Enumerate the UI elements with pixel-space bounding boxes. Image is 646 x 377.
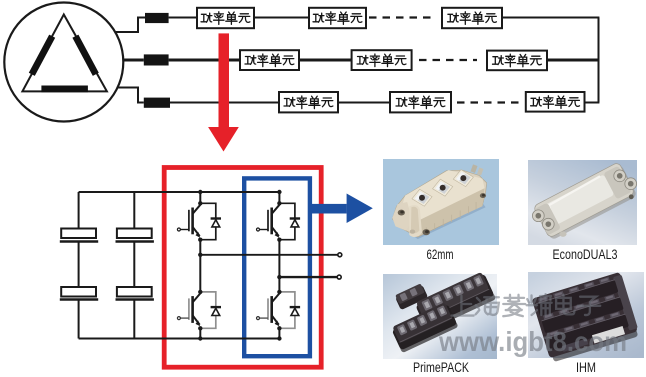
power unit box 1.1: [197, 8, 254, 28]
svg-text:IHM: IHM: [576, 359, 596, 375]
photo EconoDUAL3: [528, 160, 637, 245]
power unit box 2.3: [487, 51, 547, 71]
source circle: [4, 3, 123, 122]
DC bottom rail: [79, 338, 280, 340]
power unit box 3.3: [526, 92, 585, 112]
photo IHM: [528, 272, 644, 363]
wire phase 1 from source: [116, 18, 145, 33]
DC top rail: [79, 191, 280, 193]
blue arrow right: [309, 194, 373, 224]
wire: [585, 102, 600, 104]
wire: [254, 17, 309, 19]
dashed wire row 2: [419, 59, 477, 61]
junction top rail / leg B: [277, 190, 281, 194]
capacitor column 1 wires: [78, 192, 80, 229]
junction bottom rail / leg B: [277, 336, 281, 340]
winding bar bottom: [41, 86, 88, 93]
power unit box 3.1: [279, 92, 338, 112]
power unit box 2.1: [240, 50, 299, 70]
phase output A wire: [200, 254, 338, 256]
wire phase 3 from source: [118, 88, 144, 103]
svg-text:PrimePACK: PrimePACK: [413, 359, 469, 375]
wire: [169, 59, 240, 62]
svg-text:62mm: 62mm: [427, 246, 454, 262]
junction leg A / output A: [198, 253, 202, 257]
red arrow down: [208, 33, 239, 151]
terminal A: [338, 253, 342, 257]
power unit box 2.2: [352, 50, 412, 70]
red rectangle power-unit outline: [164, 168, 321, 368]
IGBT Q2 top-right with diode: [257, 201, 301, 242]
wire: [299, 59, 352, 62]
IGBT Q3 bottom-left with diode: [177, 290, 221, 331]
power unit box 1.2: [309, 8, 366, 28]
photo 62mm: [383, 159, 499, 245]
bus vertical wire right: [598, 18, 600, 103]
wire phase 2 from source: [124, 59, 144, 62]
capacitor C2: [60, 287, 98, 300]
choke phase 2: [144, 54, 169, 65]
wire: [170, 102, 279, 104]
capacitor column 2 wires: [133, 192, 135, 229]
winding bar right: [75, 36, 95, 74]
dashed wire row 1: [369, 16, 436, 18]
choke phase 3: [144, 98, 170, 108]
choke phase 1: [145, 13, 169, 23]
wire: [502, 17, 599, 19]
wire: [169, 17, 197, 19]
junction leg B / output B: [277, 275, 281, 279]
terminal B: [337, 275, 341, 279]
capacitor C3: [116, 229, 154, 242]
capacitor C1: [60, 229, 98, 242]
wire: [338, 102, 390, 104]
wire: [547, 59, 599, 62]
power unit box 3.2: [390, 92, 451, 112]
leg A wires: [199, 192, 201, 203]
power unit box 1.3: [442, 8, 502, 28]
three-phase delta source G1: [4, 3, 123, 122]
junction top rail / leg A: [198, 190, 202, 194]
dashed wire row 3: [457, 101, 523, 103]
leg B wires: [278, 192, 280, 203]
svg-text:www.igbt8.com: www.igbt8.com: [438, 326, 627, 357]
phase output B wire: [279, 276, 337, 278]
junction bottom rail / leg A: [198, 336, 202, 340]
IGBT Q4 bottom-right with diode: [257, 290, 301, 331]
blue rectangle phase-leg outline: [244, 178, 310, 356]
IGBT Q1 top-left with diode: [177, 201, 221, 242]
winding bar left: [32, 36, 52, 74]
watermark line 1: 上海菱端电子: [452, 294, 601, 316]
capacitor C4: [116, 287, 154, 300]
photo PrimePACK: [383, 271, 497, 359]
delta winding triangle: [22, 15, 107, 92]
svg-text:EconoDUAL3: EconoDUAL3: [553, 246, 618, 262]
